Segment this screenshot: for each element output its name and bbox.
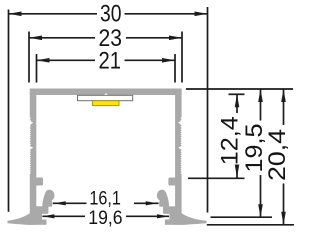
- svg-text:30: 30: [100, 1, 122, 28]
- svg-text:19,6: 19,6: [88, 208, 122, 229]
- svg-text:16,1: 16,1: [89, 189, 121, 210]
- svg-text:20,4: 20,4: [264, 129, 291, 181]
- svg-text:21: 21: [99, 48, 122, 75]
- svg-text:12,4: 12,4: [217, 116, 244, 165]
